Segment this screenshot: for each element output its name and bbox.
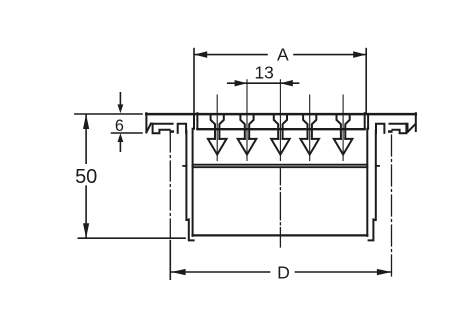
dimension D arrowhead right (pointing right) bbox=[377, 269, 391, 275]
flow arrow 5 hollow head bbox=[334, 139, 353, 155]
right edge rail lip bar bbox=[388, 130, 393, 133]
dimension 50 arrowhead bottom bbox=[83, 223, 89, 238]
svg-text:50: 50 bbox=[75, 166, 97, 188]
flow arrow 5 slot funnel bbox=[337, 115, 350, 139]
left edge rail T-slot tab bbox=[178, 124, 186, 133]
right channel inner wall bbox=[366, 129, 368, 236]
flow arrow 1 slot funnel bbox=[211, 115, 224, 139]
flow arrow 1 hollow head bbox=[208, 139, 227, 155]
left edge rail T-slot hook bbox=[153, 124, 170, 133]
svg-text:A: A bbox=[277, 45, 289, 65]
dimension A arrowhead right bbox=[353, 51, 366, 58]
flow arrow 4 centerline bbox=[309, 95, 311, 161]
flow arrow 2 slot funnel bbox=[240, 115, 253, 139]
dimension 13 line with outside tails bbox=[228, 82, 299, 84]
flow arrow 3 centerline bbox=[279, 80, 281, 161]
right edge rail T-slot hook bbox=[392, 124, 406, 133]
flow arrow 5 centerline bbox=[342, 95, 344, 161]
right edge rail outer edge bbox=[415, 113, 417, 131]
dimension 13 arrowhead left (pointing right) bbox=[235, 80, 248, 86]
left edge rail inner plate line bbox=[151, 123, 173, 125]
svg-text:13: 13 bbox=[255, 63, 274, 83]
center axis centerline (dash-dot) bbox=[279, 169, 281, 247]
top surface line (grate + edge rails), continuous bbox=[146, 113, 416, 116]
dimension D line bbox=[172, 271, 392, 273]
dimension 6 top arrow bbox=[119, 93, 121, 108]
right rail / grate junction line bbox=[367, 114, 369, 129]
gasket tick left bbox=[183, 165, 186, 167]
dimension A left extension bbox=[193, 49, 195, 113]
flow arrow 3 hollow head bbox=[271, 139, 290, 155]
grate left end bbox=[196, 113, 198, 129]
grate bottom line, continuous bbox=[197, 128, 364, 130]
left rail centerline (dash-dot) bbox=[169, 132, 171, 239]
right edge rail inner plate line bbox=[390, 124, 408, 132]
left D extension line bbox=[169, 241, 171, 280]
svg-text:D: D bbox=[277, 263, 290, 283]
dimension 50 arrowhead top bbox=[83, 114, 89, 129]
flow arrow 4 hollow head bbox=[300, 139, 319, 155]
right edge rail T-slot tab bbox=[376, 124, 384, 133]
flow arrow 2 centerline bbox=[246, 80, 248, 161]
gasket double line upper bbox=[193, 164, 368, 166]
left edge rail lip diagonal bbox=[146, 124, 151, 133]
flow arrow 1 centerline bbox=[216, 95, 218, 161]
flow arrow 2 hollow head bbox=[238, 139, 257, 155]
left channel inner wall bbox=[192, 129, 194, 236]
dimension 50 line bbox=[85, 115, 87, 238]
dimension A line bbox=[195, 54, 366, 56]
right rail stem outer wall bbox=[369, 131, 376, 241]
dimension D arrowhead left (pointing left) bbox=[171, 269, 185, 275]
flow arrow 3 slot funnel bbox=[274, 115, 287, 139]
dimension 6 bottom extension line bbox=[112, 132, 142, 134]
channel bottom bbox=[193, 234, 368, 236]
gasket double line lower bbox=[193, 166, 368, 168]
dimension A arrowhead left bbox=[194, 51, 207, 58]
left edge rail lip bar bbox=[170, 130, 175, 133]
right edge rail lip diagonal bbox=[408, 124, 416, 132]
gasket tick right bbox=[376, 165, 379, 167]
grate right end bbox=[364, 113, 366, 129]
dimension 50 bottom extension line bbox=[78, 237, 185, 239]
left rail stem outer wall bbox=[186, 131, 193, 241]
svg-text:6: 6 bbox=[115, 117, 124, 135]
right rail centerline (dash-dot) bbox=[391, 135, 393, 280]
extension line, top-left datum (6 / 50 top) bbox=[75, 113, 142, 115]
left edge rail outer edge bbox=[145, 113, 147, 132]
left rail / grate junction line bbox=[193, 114, 195, 129]
dimension A right extension bbox=[365, 49, 367, 113]
flow arrow 4 slot funnel bbox=[303, 115, 316, 139]
dimension 13 arrowhead right (pointing left) bbox=[280, 80, 293, 86]
dimension 6 bottom arrow bbox=[119, 140, 121, 151]
